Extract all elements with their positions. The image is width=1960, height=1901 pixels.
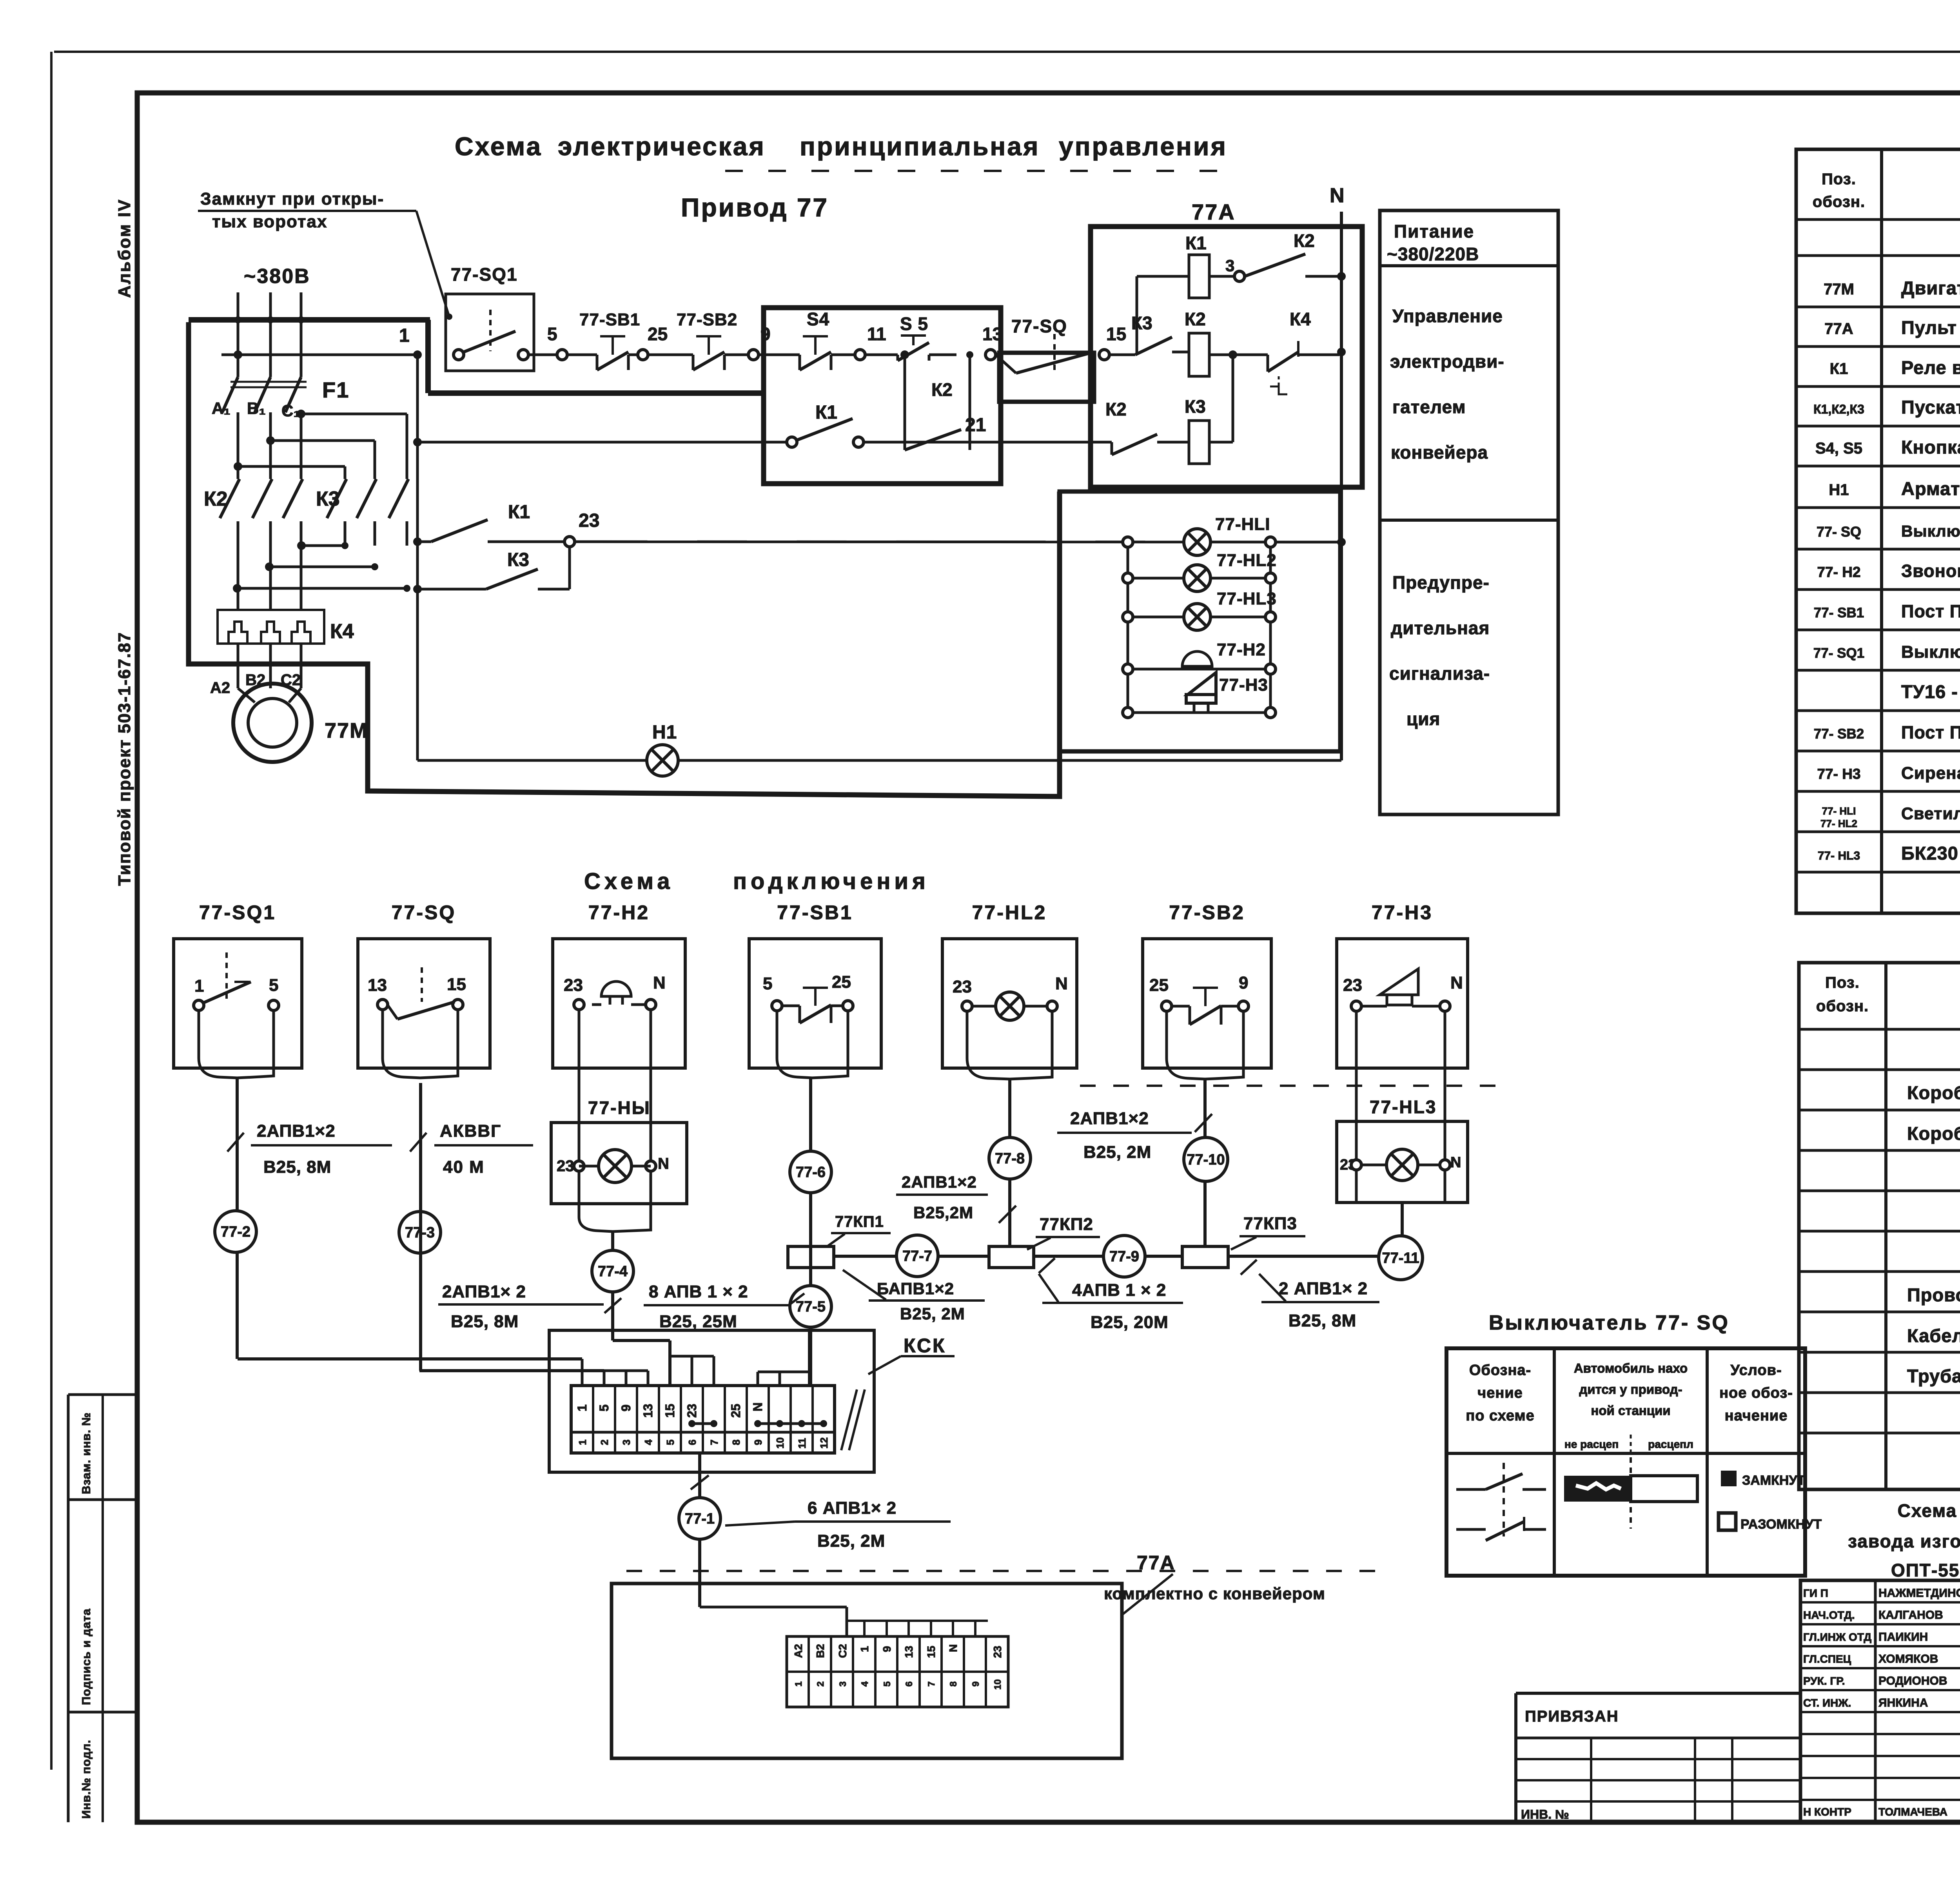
svg-text:S 5: S 5 bbox=[900, 314, 928, 334]
svg-text:4АПВ 1 × 2: 4АПВ 1 × 2 bbox=[1072, 1281, 1166, 1300]
svg-text:2: 2 bbox=[599, 1440, 610, 1445]
KSK hash marks bbox=[841, 1389, 857, 1450]
23 wire with K1 aux bbox=[413, 537, 422, 546]
svg-text:2АПВ1× 2: 2АПВ1× 2 bbox=[442, 1282, 526, 1301]
svg-text:~380В: ~380В bbox=[244, 265, 310, 288]
svg-text:К1,К2,К3: К1,К2,К3 bbox=[1813, 402, 1864, 416]
K3 aux to node 23 bbox=[413, 585, 422, 593]
svg-text:сигнализа-: сигнализа- bbox=[1389, 663, 1490, 684]
svg-text:электрическая: электрическая bbox=[558, 132, 766, 161]
svg-text:77-SQ1: 77-SQ1 bbox=[199, 902, 276, 923]
svg-text:12: 12 bbox=[818, 1437, 830, 1449]
lamp bus verticals bbox=[1127, 542, 1129, 713]
svg-text:5: 5 bbox=[664, 1440, 676, 1445]
svg-text:23: 23 bbox=[564, 976, 583, 995]
KSK incoming wires bbox=[238, 1357, 582, 1360]
cable label 2APV on SB2 bbox=[1195, 1114, 1212, 1132]
svg-text:23: 23 bbox=[1343, 976, 1362, 995]
row3: 21 wire K2 contact K3 coil bbox=[1091, 441, 1112, 444]
svg-text:77-10: 77-10 bbox=[1187, 1152, 1225, 1168]
H1 signal lamp wire bbox=[417, 759, 647, 762]
svg-text:9: 9 bbox=[619, 1404, 633, 1411]
svg-text:ОПТ-5537- Курского станко: ОПТ-5537- Курского станкостроительного з… bbox=[1891, 1560, 1960, 1580]
svg-text:23: 23 bbox=[991, 1646, 1004, 1658]
svg-text:Арматура сигнальная - АС 120: Арматура сигнальная - АС 12013 bbox=[1901, 478, 1960, 499]
svg-text:11: 11 bbox=[867, 324, 886, 344]
circle 77-10 bbox=[1184, 1137, 1228, 1181]
svg-text:3: 3 bbox=[621, 1440, 632, 1445]
svg-text:В25, 8М: В25, 8М bbox=[1289, 1311, 1356, 1330]
conveyor station thick box bbox=[764, 308, 1001, 484]
svg-text:40 М: 40 М bbox=[443, 1157, 485, 1177]
svg-text:Н КОНТР: Н КОНТР bbox=[1803, 1806, 1851, 1818]
svg-text:1: 1 bbox=[858, 1646, 871, 1652]
border frame bbox=[54, 51, 1960, 53]
svg-text:N: N bbox=[751, 1402, 765, 1411]
svg-text:5: 5 bbox=[269, 976, 278, 995]
svg-text:Питание: Питание bbox=[1394, 221, 1474, 241]
vertical feeder from node 1 bbox=[416, 355, 419, 760]
svg-text:ХОМЯКОВ: ХОМЯКОВ bbox=[1878, 1652, 1938, 1665]
svg-text:23: 23 bbox=[953, 977, 972, 996]
svg-text:С2: С2 bbox=[281, 671, 301, 689]
svg-text:С₁: С₁ bbox=[281, 401, 300, 420]
svg-text:15: 15 bbox=[925, 1646, 937, 1658]
svg-text:77-HLI: 77-HLI bbox=[1215, 515, 1270, 534]
svg-text:дится у привод-: дится у привод- bbox=[1579, 1382, 1682, 1397]
svg-text:ЯНКИНА: ЯНКИНА bbox=[1878, 1696, 1928, 1709]
svg-text:А2: А2 bbox=[792, 1644, 804, 1658]
cable mark 2APV bbox=[227, 1133, 244, 1152]
svg-text:25: 25 bbox=[1149, 976, 1169, 995]
svg-text:В2: В2 bbox=[245, 671, 265, 689]
terminal 77KP2 bbox=[989, 1246, 1034, 1268]
svg-text:БАПВ1×2: БАПВ1×2 bbox=[877, 1279, 954, 1298]
dashed boundary line bbox=[1080, 1085, 1501, 1087]
svg-text:23: 23 bbox=[557, 1157, 574, 1175]
svg-text:начение: начение bbox=[1725, 1408, 1788, 1424]
svg-text:23: 23 bbox=[579, 510, 599, 531]
svg-text:2АПВ1×2: 2АПВ1×2 bbox=[902, 1173, 977, 1191]
svg-text:N: N bbox=[1450, 973, 1463, 992]
svg-text:77-8: 77-8 bbox=[995, 1150, 1025, 1167]
svg-text:77-9: 77-9 bbox=[1109, 1248, 1139, 1265]
box 77-SB2 bbox=[1143, 939, 1271, 1068]
svg-text:77-SB2: 77-SB2 bbox=[1169, 902, 1245, 923]
thick enclosure line bbox=[189, 322, 1060, 796]
box 77-Н2 bbox=[553, 939, 685, 1068]
svg-text:Пускатель магнитный ПМЕ-214: Пускатель магнитный ПМЕ-214 bbox=[1901, 397, 1960, 417]
svg-text:К2: К2 bbox=[1185, 309, 1206, 329]
svg-text:8: 8 bbox=[948, 1682, 959, 1687]
svg-text:1: 1 bbox=[575, 1404, 589, 1411]
svg-text:обозн.: обозн. bbox=[1813, 193, 1865, 210]
svg-text:77-Н2: 77-Н2 bbox=[1217, 640, 1266, 659]
svg-text:Труба ПВХ-В-Р ЭП25С, ТУ6-19: Труба ПВХ-В-Р ЭП25С, ТУ6-19-215-83 bbox=[1907, 1366, 1960, 1386]
svg-text:13: 13 bbox=[368, 976, 387, 995]
cable label on HL2 drop bbox=[999, 1206, 1016, 1223]
svg-text:Н1: Н1 bbox=[1829, 481, 1849, 499]
svg-text:6: 6 bbox=[686, 1440, 698, 1445]
svg-text:Схема: Схема bbox=[455, 132, 542, 161]
svg-text:В25, 8М: В25, 8М bbox=[263, 1157, 331, 1177]
thick supply bus bbox=[189, 317, 430, 323]
svg-text:А₁: А₁ bbox=[212, 399, 230, 417]
svg-text:77-HL3: 77-HL3 bbox=[1217, 589, 1277, 608]
svg-text:S4, S5: S4, S5 bbox=[1815, 440, 1862, 457]
svg-text:N: N bbox=[1450, 1154, 1461, 1171]
svg-text:77А: 77А bbox=[1192, 200, 1236, 224]
svg-text:7: 7 bbox=[708, 1440, 720, 1445]
terminal 77KP3 bbox=[1182, 1246, 1228, 1268]
svg-text:2: 2 bbox=[815, 1682, 826, 1687]
svg-text:5: 5 bbox=[597, 1404, 611, 1411]
svg-text:не расцеп: не расцеп bbox=[1564, 1438, 1619, 1450]
svg-text:БК230 - 240- 60: БК230 - 240- 60 bbox=[1901, 843, 1960, 863]
circle 77-5 bbox=[790, 1286, 831, 1327]
svg-text:В25, 2М: В25, 2М bbox=[817, 1531, 885, 1551]
svg-text:77-5: 77-5 bbox=[796, 1299, 826, 1315]
svg-text:СТ. ИНЖ.: СТ. ИНЖ. bbox=[1803, 1697, 1851, 1709]
box 77-SB1 bbox=[749, 939, 881, 1068]
svg-text:К4: К4 bbox=[1290, 309, 1311, 329]
svg-text:В25,2М: В25,2М bbox=[913, 1203, 973, 1222]
svg-text:Услов-: Услов- bbox=[1730, 1362, 1782, 1379]
svg-text:Кабель АКВВГ 4×2,5, ГОСТ 150: Кабель АКВВГ 4×2,5, ГОСТ 1508-78*Е bbox=[1907, 1325, 1960, 1346]
svg-text:77-HL2: 77-HL2 bbox=[972, 902, 1047, 923]
svg-text:В25, 25М: В25, 25М bbox=[659, 1312, 737, 1331]
svg-text:77-SQ: 77-SQ bbox=[1011, 316, 1067, 336]
svg-text:ция: ция bbox=[1406, 709, 1440, 729]
svg-text:КСК: КСК bbox=[904, 1335, 946, 1357]
svg-text:В2: В2 bbox=[814, 1644, 826, 1658]
svg-text:Пост ПКЕ-712-1У3, ТУ16-642.0: Пост ПКЕ-712-1У3, ТУ16-642.006- 83 bbox=[1901, 722, 1960, 742]
svg-text:77М: 77М bbox=[325, 719, 368, 742]
77A pult bottom box bbox=[612, 1584, 1122, 1758]
svg-text:Альбом IV: Альбом IV bbox=[115, 198, 134, 298]
svg-text:77- HL3: 77- HL3 bbox=[1818, 849, 1860, 862]
svg-text:С2: С2 bbox=[837, 1644, 849, 1658]
svg-text:ПАИКИН: ПАИКИН bbox=[1878, 1631, 1928, 1643]
svg-text:77- HL2: 77- HL2 bbox=[1820, 818, 1857, 829]
svg-text:Пост ПКЕ-212- 1У3, ТУ16-642.: Пост ПКЕ-212- 1У3, ТУ16-642.006 -83 bbox=[1901, 601, 1960, 621]
svg-text:К4: К4 bbox=[330, 620, 354, 643]
svg-text:F1: F1 bbox=[322, 377, 349, 402]
box 77-SQ bbox=[358, 939, 490, 1068]
21 wire with K1 aux bbox=[413, 438, 422, 446]
svg-text:Управление: Управление bbox=[1392, 306, 1503, 326]
svg-text:К1: К1 bbox=[1830, 360, 1848, 377]
svg-text:ной станции: ной станции bbox=[1591, 1403, 1670, 1418]
svg-text:7: 7 bbox=[926, 1682, 937, 1687]
svg-text:15: 15 bbox=[663, 1404, 677, 1418]
svg-text:5: 5 bbox=[763, 974, 772, 993]
svg-text:Поз.: Поз. bbox=[1822, 171, 1856, 188]
svg-text:77-6: 77-6 bbox=[796, 1164, 826, 1181]
svg-text:Двигатель А02-42-4, Р= 5,5 к: Двигатель А02-42-4, Р= 5,5 кВт bbox=[1901, 278, 1960, 298]
svg-text:К3: К3 bbox=[507, 550, 529, 570]
svg-text:77КП3: 77КП3 bbox=[1243, 1214, 1297, 1233]
svg-text:9: 9 bbox=[1239, 973, 1248, 992]
phase drop wires bbox=[237, 412, 240, 479]
legend bbox=[1721, 1471, 1737, 1486]
svg-text:обозн.: обозн. bbox=[1816, 998, 1869, 1015]
svg-text:В25, 8М: В25, 8М bbox=[451, 1312, 519, 1331]
svg-text:23: 23 bbox=[685, 1404, 699, 1418]
svg-text:77-4: 77-4 bbox=[598, 1263, 628, 1280]
svg-text:77М: 77М bbox=[1824, 281, 1854, 298]
svg-text:N: N bbox=[1330, 184, 1345, 207]
phase lines top bbox=[237, 292, 240, 377]
svg-text:77-Н2: 77-Н2 bbox=[588, 902, 650, 923]
switch symbols in table bbox=[1503, 1463, 1505, 1536]
svg-text:77- SQ1: 77- SQ1 bbox=[1813, 646, 1864, 661]
svg-text:подключения: подключения bbox=[733, 869, 929, 894]
svg-text:В25, 2М: В25, 2М bbox=[900, 1304, 965, 1323]
svg-text:13: 13 bbox=[903, 1646, 915, 1658]
svg-text:6: 6 bbox=[904, 1682, 915, 1687]
svg-text:К3: К3 bbox=[1185, 396, 1206, 417]
svg-text:77-7: 77-7 bbox=[902, 1248, 932, 1264]
svg-text:77-НЫ: 77-НЫ bbox=[588, 1097, 651, 1118]
svg-text:Реле времени.. РВП 72-3122-0: Реле времени.. РВП 72-3122-00У3 bbox=[1901, 357, 1960, 378]
svg-text:Взам. инв. №: Взам. инв. № bbox=[80, 1412, 93, 1494]
svg-text:~380/220В: ~380/220В bbox=[1387, 244, 1479, 264]
svg-text:2АПВ1×2: 2АПВ1×2 bbox=[1070, 1109, 1149, 1128]
svg-text:ТУ16 - 526.433-78: ТУ16 - 526.433-78 bbox=[1901, 681, 1960, 702]
svg-text:25: 25 bbox=[832, 972, 851, 992]
svg-text:5: 5 bbox=[547, 324, 557, 344]
svg-text:25: 25 bbox=[648, 324, 668, 344]
row1: K1 coil and K2 contact bbox=[1136, 276, 1138, 355]
svg-text:N: N bbox=[653, 973, 666, 992]
svg-text:77А: 77А bbox=[1824, 320, 1853, 337]
svg-text:расцепл: расцепл bbox=[1648, 1438, 1693, 1450]
svg-text:77-SQ1: 77-SQ1 bbox=[451, 264, 518, 285]
svg-text:Схема: Схема bbox=[584, 869, 674, 894]
svg-text:Пульт: Пульт bbox=[1901, 317, 1957, 338]
svg-text:АКВВГ: АКВВГ bbox=[440, 1121, 501, 1141]
svg-text:2АПВ1×2: 2АПВ1×2 bbox=[257, 1121, 336, 1141]
svg-text:К2: К2 bbox=[1294, 230, 1315, 251]
svg-text:Инв.№ подл.: Инв.№ подл. bbox=[80, 1740, 93, 1819]
control tap wire node 1 bbox=[221, 354, 417, 356]
svg-text:77- Н2: 77- Н2 bbox=[1817, 564, 1860, 580]
svg-text:комплектно с конвейером: комплектно с конвейером bbox=[1104, 1584, 1325, 1603]
lamp group enclosure bbox=[1060, 492, 1340, 751]
svg-text:тых воротах: тых воротах bbox=[212, 212, 327, 231]
svg-text:чение: чение bbox=[1477, 1385, 1523, 1401]
svg-text:Типовой проект 503-1-67.87: Типовой проект 503-1-67.87 bbox=[115, 632, 134, 886]
box 77-HL2 bbox=[942, 939, 1077, 1068]
power legend box bbox=[1380, 210, 1558, 814]
svg-text:Сирена СС-1, ТУ25- 05- 1: Сирена СС-1, ТУ25- 05- 1044-76 ;~220В bbox=[1901, 764, 1960, 783]
signature table bbox=[1800, 1580, 1960, 1822]
svg-text:1: 1 bbox=[793, 1682, 804, 1687]
svg-text:77-SQ: 77-SQ bbox=[392, 902, 456, 923]
svg-text:N: N bbox=[658, 1155, 669, 1172]
K3 branch taps bbox=[297, 410, 305, 418]
svg-text:10: 10 bbox=[774, 1437, 786, 1449]
circle 77-4 bbox=[592, 1250, 633, 1292]
svg-text:РАЗОМКНУТ: РАЗОМКНУТ bbox=[1740, 1517, 1822, 1532]
svg-text:принципиальная: принципиальная bbox=[800, 132, 1040, 161]
svg-text:Обозна-: Обозна- bbox=[1469, 1362, 1531, 1379]
state bar bbox=[1630, 1457, 1632, 1475]
svg-text:77- SB1: 77- SB1 bbox=[1814, 605, 1864, 620]
circle 77-8 bbox=[989, 1137, 1031, 1179]
svg-text:15: 15 bbox=[447, 975, 466, 994]
svg-text:10: 10 bbox=[993, 1679, 1003, 1690]
svg-text:ГЛ.ИНЖ ОТД: ГЛ.ИНЖ ОТД bbox=[1803, 1631, 1871, 1643]
svg-text:N: N bbox=[947, 1644, 959, 1652]
motor 77M bbox=[238, 688, 255, 702]
svg-text:77КП2: 77КП2 bbox=[1040, 1215, 1093, 1234]
svg-text:дительная: дительная bbox=[1391, 618, 1490, 638]
svg-text:Подпись и дата: Подпись и дата bbox=[80, 1609, 93, 1705]
77A terminal strip bbox=[787, 1636, 1008, 1707]
KSK terminal strip bbox=[571, 1386, 835, 1453]
svg-text:Кнопка КЕ- 011 У3: Кнопка КЕ- 011 У3 bbox=[1901, 437, 1960, 457]
svg-text:77-HL2: 77-HL2 bbox=[1217, 551, 1277, 570]
svg-text:НАЖМЕТДИНОВ: НАЖМЕТДИНОВ bbox=[1878, 1587, 1960, 1600]
wire KSK to 77-1 bbox=[698, 1453, 701, 1607]
trunk slashes bbox=[1039, 1258, 1055, 1273]
svg-text:Замкнут при откры-: Замкнут при откры- bbox=[200, 189, 384, 209]
svg-text:13: 13 bbox=[982, 324, 1002, 344]
circle 77-3 bbox=[399, 1212, 441, 1253]
svg-text:гателем: гателем bbox=[1392, 397, 1466, 417]
svg-text:8 АПВ 1 × 2: 8 АПВ 1 × 2 bbox=[649, 1282, 748, 1301]
svg-text:77- SQ: 77- SQ bbox=[1817, 524, 1861, 540]
pult 77A box bbox=[1091, 227, 1362, 487]
svg-text:управления: управления bbox=[1059, 132, 1227, 161]
svg-text:Коробка КСК-16: Коробка КСК-16 bbox=[1907, 1123, 1960, 1144]
svg-text:8: 8 bbox=[730, 1440, 742, 1445]
privyazan strip bbox=[1516, 1692, 1800, 1695]
svg-text:К3: К3 bbox=[1131, 313, 1152, 333]
svg-text:ГЛ.СПЕЦ: ГЛ.СПЕЦ bbox=[1803, 1653, 1851, 1665]
svg-text:Предупре-: Предупре- bbox=[1392, 572, 1490, 593]
svg-text:2 АПВ1× 2: 2 АПВ1× 2 bbox=[1279, 1279, 1368, 1298]
svg-text:77КП1: 77КП1 bbox=[835, 1213, 884, 1230]
svg-text:Коробка У996У2, ТУ36 -2057-: Коробка У996У2, ТУ36 -2057- 81 bbox=[1907, 1082, 1960, 1103]
KSK junction box bbox=[549, 1330, 874, 1472]
svg-text:РОДИОНОВ: РОДИОНОВ bbox=[1878, 1674, 1947, 1687]
trunk line bbox=[834, 1255, 897, 1258]
svg-text:77-SB1: 77-SB1 bbox=[777, 902, 853, 923]
svg-text:13: 13 bbox=[641, 1404, 655, 1418]
svg-text:9: 9 bbox=[881, 1646, 893, 1652]
svg-text:4: 4 bbox=[642, 1439, 654, 1445]
svg-text:Поз.: Поз. bbox=[1825, 974, 1860, 991]
svg-text:КАЛГАНОВ: КАЛГАНОВ bbox=[1878, 1609, 1943, 1622]
svg-text:1: 1 bbox=[399, 325, 410, 346]
svg-text:Автомобиль нахо: Автомобиль нахо bbox=[1574, 1361, 1688, 1375]
svg-text:9: 9 bbox=[752, 1440, 764, 1445]
svg-text:электродви-: электродви- bbox=[1390, 351, 1504, 372]
svg-text:конвейера: конвейера bbox=[1391, 442, 1488, 463]
svg-text:11: 11 bbox=[796, 1438, 808, 1449]
cable mark AKVVG bbox=[410, 1133, 426, 1152]
svg-text:НАЧ.ОТД.: НАЧ.ОТД. bbox=[1803, 1609, 1855, 1621]
svg-text:К1: К1 bbox=[815, 402, 837, 423]
KSK jumpers bbox=[692, 1422, 714, 1425]
svg-text:К1: К1 bbox=[508, 502, 530, 522]
svg-text:К2: К2 bbox=[931, 379, 953, 400]
svg-text:по схеме: по схеме bbox=[1466, 1408, 1534, 1424]
svg-text:ЗАМКНУТ: ЗАМКНУТ bbox=[1742, 1473, 1806, 1488]
svg-text:ГИ П: ГИ П bbox=[1803, 1587, 1828, 1599]
box 77-SQ1 bbox=[174, 939, 302, 1068]
svg-text:77-2: 77-2 bbox=[221, 1224, 250, 1240]
svg-text:3: 3 bbox=[838, 1682, 848, 1687]
svg-text:3: 3 bbox=[1225, 256, 1234, 275]
svg-text:РУК. ГР.: РУК. ГР. bbox=[1803, 1675, 1845, 1687]
svg-text:6 АПВ1× 2: 6 АПВ1× 2 bbox=[808, 1498, 897, 1518]
circle 77-6 bbox=[790, 1151, 831, 1193]
box 77-Н3 bbox=[1337, 939, 1468, 1068]
svg-text:77-11: 77-11 bbox=[1382, 1250, 1419, 1266]
svg-text:15: 15 bbox=[1106, 324, 1126, 344]
K4 thermal relay bbox=[218, 610, 324, 644]
svg-text:В25, 20М: В25, 20М bbox=[1091, 1313, 1169, 1332]
svg-text:ТОЛМАЧЕВА: ТОЛМАЧЕВА bbox=[1878, 1806, 1947, 1818]
margin stamp boxes bbox=[67, 1395, 70, 1822]
svg-text:77-Н3: 77-Н3 bbox=[1219, 675, 1268, 695]
svg-text:S4: S4 bbox=[807, 309, 829, 329]
circle 77-2 bbox=[215, 1211, 256, 1252]
svg-text:1: 1 bbox=[194, 976, 204, 996]
svg-text:Выключатель конечный ВПК2112-: Выключатель конечный ВПК2112- УХЛ4АУ2 bbox=[1901, 642, 1960, 662]
wire 77-5 into KSK bbox=[808, 1330, 811, 1386]
svg-text:ПРИВЯЗАН: ПРИВЯЗАН bbox=[1525, 1708, 1619, 1725]
svg-text:77А: 77А bbox=[1137, 1552, 1175, 1574]
svg-text:77-HL3: 77-HL3 bbox=[1370, 1097, 1437, 1117]
svg-text:ИНВ. №: ИНВ. № bbox=[1521, 1807, 1569, 1821]
svg-text:Провод АПВ 2-380, ГОСТ 632: Провод АПВ 2-380, ГОСТ 6323-79* bbox=[1907, 1284, 1960, 1305]
phase jumpers below contacts bbox=[301, 544, 345, 547]
svg-text:Схема принципиальная приня: Схема принципиальная принята по чертежу … bbox=[1898, 1500, 1960, 1521]
svg-text:25: 25 bbox=[729, 1404, 743, 1418]
svg-text:Выключатель 77- SQ: Выключатель 77- SQ bbox=[1489, 1311, 1730, 1334]
svg-text:77-SB2: 77-SB2 bbox=[677, 310, 737, 329]
svg-text:77- SB2: 77- SB2 bbox=[1814, 726, 1864, 742]
svg-text:4: 4 bbox=[860, 1681, 870, 1687]
svg-text:77-Н3: 77-Н3 bbox=[1372, 902, 1433, 923]
svg-text:завода изготовителя устройст: завода изготовителя устройства для перем… bbox=[1848, 1531, 1960, 1551]
svg-text:Н1: Н1 bbox=[652, 722, 677, 743]
svg-text:77- HLI: 77- HLI bbox=[1822, 805, 1856, 817]
svg-text:Привод 77: Привод 77 bbox=[681, 193, 829, 222]
svg-text:В25, 2М: В25, 2М bbox=[1083, 1143, 1151, 1162]
svg-text:Выключатель путевой ВПК-111ОУ2: Выключатель путевой ВПК-111ОУ2, ГОСТ 181… bbox=[1901, 522, 1960, 540]
svg-text:21: 21 bbox=[965, 415, 986, 435]
svg-text:77-1: 77-1 bbox=[685, 1511, 715, 1527]
circle 77-11 bbox=[1379, 1236, 1423, 1280]
wire to SQ bbox=[985, 350, 996, 360]
svg-text:9: 9 bbox=[971, 1682, 981, 1687]
svg-text:В₁: В₁ bbox=[247, 399, 266, 417]
svg-text:К1: К1 bbox=[1185, 233, 1207, 253]
svg-text:5: 5 bbox=[882, 1682, 893, 1687]
svg-text:N: N bbox=[1055, 974, 1068, 993]
svg-text:К2: К2 bbox=[1105, 399, 1127, 419]
svg-text:1: 1 bbox=[577, 1440, 588, 1445]
svg-text:Светильник НСП02 с лампой на: Светильник НСП02 с лампой накаливания bbox=[1901, 804, 1960, 823]
svg-text:77- Н3: 77- Н3 bbox=[1817, 766, 1860, 782]
svg-text:77-SB1: 77-SB1 bbox=[579, 310, 640, 329]
